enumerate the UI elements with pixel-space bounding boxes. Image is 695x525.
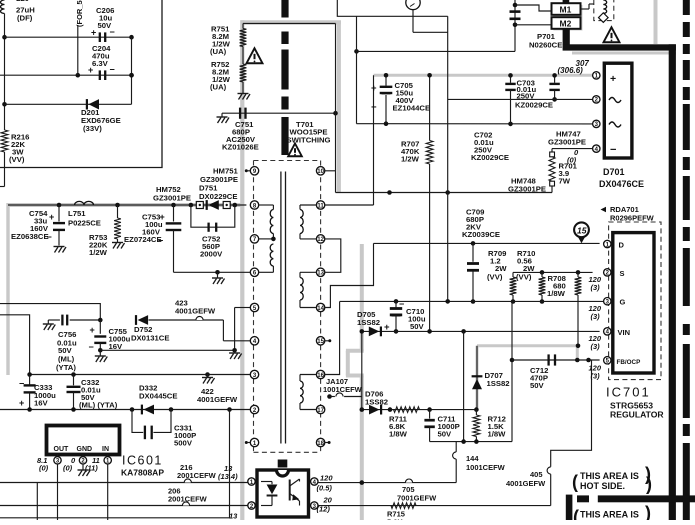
capacitor C709 [472,243,474,261]
svg-text:(0): (0) [63,464,73,473]
transformer dashed box [254,161,321,453]
svg-text:7W: 7W [559,177,571,186]
capacitor C710 [390,307,402,310]
svg-text:GZ3001PE: GZ3001PE [548,138,586,147]
svg-text:SWITCHING: SWITCHING [287,136,331,145]
resistor R752 [240,64,247,82]
ground R753 [112,242,123,244]
svg-text:(11): (11) [85,464,98,473]
node dot bridge out [354,49,359,54]
svg-text:+: + [91,28,96,38]
wire pin6 gnd stub [174,271,251,273]
node flag 15 [574,222,589,237]
wire gray highlighted secondary trace [360,244,364,351]
svg-text:D701: D701 [603,167,625,177]
capacitor C753 [173,205,175,222]
resistor R712 [475,410,477,415]
wire cap to M2 [515,24,551,26]
capacitor C332 [73,375,75,386]
warning triangle T701 [288,143,302,156]
svg-text:IN: IN [102,446,109,453]
pin IC701-4 [604,328,611,335]
wire rail 272 R-top [513,271,593,273]
svg-text:REGULATOR: REGULATOR [610,410,664,420]
diode D332 [141,405,143,415]
pin T701-1 [250,438,258,446]
node dots rail 205 [57,203,62,208]
svg-text:G: G [620,298,626,307]
wire pin5L strap [235,307,251,309]
capacitor C333 [29,375,31,386]
svg-text:144: 144 [466,454,479,463]
svg-text:13: 13 [317,271,324,277]
pin IC601-3 [57,455,59,457]
inductor L201 27uH [1,0,5,14]
resistor R701 [549,157,555,181]
wire C752 loop [191,205,235,227]
pin T701-5 [250,303,258,311]
wire feed 303 [0,304,100,320]
svg-text:DX0131CE: DX0131CE [131,334,169,343]
pin D701-4 [593,145,600,152]
wire gray highlighted trace switching loop [241,20,342,24]
svg-text:17: 17 [317,408,324,414]
RDA701 dashed box [609,222,661,380]
svg-text:): ) [646,474,652,494]
degauss coil dashed box [594,0,614,21]
svg-text:(33V): (33V) [83,124,102,133]
svg-text:KZ01026E: KZ01026E [222,143,259,152]
svg-text:1/2W: 1/2W [89,248,108,257]
ground rail374 [207,375,209,378]
wire R701 return [551,186,553,193]
svg-text:15: 15 [317,339,324,345]
pin opto-2 [248,502,255,509]
box upper-left block border [0,0,162,168]
svg-text:GZ3001PE: GZ3001PE [200,175,238,184]
resistor R707 [429,75,431,140]
pin T701-17 [316,405,324,413]
svg-text:L751: L751 [68,209,86,218]
svg-text:−: − [371,102,377,113]
svg-text:12: 12 [317,237,324,243]
ground C751 left [221,113,223,116]
pin T701-9 [250,167,258,175]
svg-text:OUT: OUT [54,446,70,453]
pin18 tick [325,442,329,444]
svg-text:1SS82: 1SS82 [365,398,388,407]
wire rail 350 [100,349,234,351]
resistor R753 [117,205,119,218]
pin1 tick [245,441,248,444]
svg-text:(3): (3) [591,342,601,351]
wire gray highlighted B+ rail [374,74,595,77]
svg-text:(3): (3) [591,371,601,380]
svg-text:): ) [645,503,651,520]
svg-text:(306.6): (306.6) [558,66,584,75]
node junction dots left [2,35,7,40]
pin D701-3 [593,120,600,127]
wire drain vertical [447,16,449,301]
ground C754 [54,246,65,248]
svg-text:1/8W: 1/8W [547,289,566,298]
svg-text:(3): (3) [591,312,601,321]
wire pin2 rail 99 [448,98,593,100]
outer dashed border [683,0,690,15]
pin T701-16 [316,370,324,378]
svg-text:L20: L20 [16,0,29,3]
wire rail 505 right [318,505,551,507]
svg-text:1001CEFW: 1001CEFW [323,385,363,394]
wire gray trace link [361,331,363,409]
resistor R751 [240,29,247,47]
svg-text:DX0445CE: DX0445CE [139,392,177,401]
wire pin3 down [57,464,59,520]
pin15 tick [325,340,330,342]
capacitor C711 [429,410,431,419]
svg-text:+: + [371,83,377,94]
svg-text:THIS AREA IS: THIS AREA IS [580,471,639,481]
svg-text:P0225CE: P0225CE [68,219,101,228]
wire rail 482 left [0,482,248,484]
thick hot border from M2 [563,29,570,45]
pin T701-12 [316,235,324,243]
svg-text:405: 405 [530,470,543,479]
wire rail 482 right [318,482,456,484]
svg-text:(FOR_5: (FOR_5 [75,0,84,27]
svg-text:DX0229CE: DX0229CE [199,192,237,201]
svg-text:16: 16 [317,373,324,379]
optocoupler D601 box [257,470,309,517]
svg-text:KZ0029CE: KZ0029CE [515,100,553,109]
svg-text:(DF): (DF) [17,14,33,23]
svg-text:GZ3001PE: GZ3001PE [153,194,191,203]
svg-text:(YTA): (YTA) [56,363,76,372]
jumper JA107 [327,394,332,399]
pin T701-7 [250,235,258,243]
svg-text:14: 14 [317,306,324,312]
pin9 tick [245,169,248,172]
node dots rail331 [427,329,432,334]
capacitor C704 [552,73,557,78]
pin IC701-5 [604,357,611,364]
svg-text:(UA): (UA) [210,47,227,56]
svg-text:GND: GND [77,446,93,453]
pin T701-11 [316,201,324,209]
svg-text:M2: M2 [560,18,572,28]
svg-text:(VV): (VV) [487,273,503,282]
svg-text:1/8W: 1/8W [389,430,408,439]
svg-text:R0296PEFW: R0296PEFW [610,214,655,223]
wire M1 to degauss [581,8,590,10]
wire gray shadow under P701 bar [572,52,676,55]
svg-text:18: 18 [317,441,324,447]
svg-text:−: − [89,342,94,352]
svg-text:IC601: IC601 [122,454,163,468]
winding sec 13-14 [300,271,317,273]
wire degauss caps [514,0,516,51]
svg-text:13: 13 [229,512,238,521]
diode D201 [86,99,88,109]
ground IC601 pin2 [82,464,84,470]
wire R751-R752 [242,47,244,65]
capacitor C751 [239,108,241,119]
wire rail 75 [0,74,132,76]
capacitor C756 [61,315,63,326]
pin opto-4 [311,478,318,485]
svg-text:15: 15 [577,225,587,235]
svg-text:HOT SIDE.: HOT SIDE. [580,481,625,491]
wire bottom return [36,483,38,521]
wire rail 243 to pin1 [374,242,600,244]
capacitor C755 [99,320,101,334]
pin T701-18 [316,438,324,446]
svg-text:(13.4): (13.4) [218,472,238,481]
wire cap to M1 [515,5,551,11]
svg-text:4001GEFW: 4001GEFW [175,307,216,316]
svg-text:(: ( [573,507,579,520]
ground C756 [47,320,49,324]
svg-text:1SS82: 1SS82 [357,318,380,327]
jumper HM752 [196,202,203,209]
svg-text:(3): (3) [591,283,601,292]
wire rail 505 left [0,505,248,507]
svg-text:1/2W: 1/2W [401,155,420,164]
wire rail 409 [0,409,250,411]
svg-text:+: + [90,325,95,335]
ground C755 [99,350,101,355]
resistor R709 [512,272,514,277]
cold side thick border bottom [598,495,695,502]
svg-text:4001GEFW: 4001GEFW [506,479,546,488]
pin D701-2 [593,96,600,103]
wire FB return [550,474,552,505]
svg-text:10: 10 [317,169,324,175]
wire right vertical [131,37,133,104]
svg-text:16V: 16V [34,399,49,408]
wire rail 205 black [8,204,246,206]
pin opto-1 [248,478,255,485]
svg-text:KZ0029CE: KZ0029CE [471,153,509,162]
capacitor C754 [58,205,60,222]
resistor R715 [391,503,416,509]
hot-cold thick dashed bar [281,0,288,18]
svg-text:+: + [19,398,24,408]
wire left vertical [4,14,6,131]
wire gray highlighted trace left rail [7,203,242,207]
svg-text:EZ1044CE: EZ1044CE [393,104,431,113]
optocoupler phototransistor [289,480,291,501]
svg-text:50V: 50V [410,322,425,331]
wire pin11 to B+ [325,204,374,206]
warning triangle degauss [604,27,620,42]
svg-text:2000V: 2000V [200,250,223,259]
transistor Q701 [406,0,420,10]
wire pin10 [325,170,336,172]
wire feed 315 [0,315,30,375]
pin D701-1 [593,72,600,79]
wire rail 441 [430,441,512,443]
svg-text:GZ3001PE: GZ3001PE [508,185,546,194]
winding primary lower [270,244,273,266]
wire pin14 to 15V rail [325,243,374,307]
svg-text:(0.5): (0.5) [317,484,333,493]
wire rail 192 drive [336,192,553,194]
connector P701 M1 [554,5,583,31]
svg-text:+: + [49,212,54,222]
svg-text:KZ0039CE: KZ0039CE [462,230,500,239]
wire M1 tab [563,0,570,3]
svg-text:500V: 500V [174,439,193,448]
pin IC601-2 [82,455,84,457]
svg-text:(UA): (UA) [210,83,227,92]
capacitor C206 [99,32,101,42]
svg-text:50V: 50V [438,430,453,439]
winding sec 16-17 [300,374,317,376]
pin T701-10 [316,167,324,175]
svg-text:(VV): (VV) [9,155,25,164]
svg-text:6.3V: 6.3V [92,59,109,68]
wire HV input [337,0,447,16]
svg-text:−: − [610,144,616,156]
wire switch drive vertical [335,24,337,193]
jumper HM748 [550,181,555,186]
svg-text:1SS82: 1SS82 [487,379,510,388]
svg-text:16V: 16V [109,342,124,351]
svg-text:(: ( [572,472,578,492]
diode D706 [369,405,380,415]
svg-text:120: 120 [320,474,333,483]
svg-text:−: − [110,65,115,75]
svg-text:EZ0638CE: EZ0638CE [11,232,49,241]
svg-text:KA7808AP: KA7808AP [121,468,164,478]
wire rail 320 C756 [48,319,60,321]
jumper HM751 [223,202,230,209]
wire 423 link [149,319,224,321]
svg-text:50V: 50V [98,21,113,30]
capacitor C204 [99,70,101,80]
jumper HM747 [550,152,555,157]
svg-text:4001GEFW: 4001GEFW [197,395,238,404]
wire snubber loop top [243,23,336,25]
svg-text:M1: M1 [560,4,572,14]
svg-text:1001CEFW: 1001CEFW [466,463,506,472]
svg-text:2001CEFW: 2001CEFW [177,471,217,480]
pin T701-14 [316,303,324,311]
svg-text:20: 20 [323,496,333,505]
wire to pin4L [223,340,250,342]
svg-text:S: S [620,269,625,278]
ground R752 [242,82,244,93]
resistor R216 [1,130,8,152]
wire pin16 to rail302 [325,302,340,375]
svg-text:THIS AREA IS: THIS AREA IS [580,510,639,520]
transformer core [280,172,282,444]
resistor R711 [394,407,420,413]
svg-text:−: − [19,379,24,389]
svg-text:(0): (0) [39,464,49,473]
pin T701-6 [250,268,258,276]
connector D701 box [604,63,632,158]
diode D707 [476,346,478,410]
wire FOR_5 branch [77,25,79,75]
label RDA701 [601,207,607,212]
capacitor C707 degauss [510,10,521,13]
svg-text:D: D [619,241,625,250]
svg-text:2001CEFW: 2001CEFW [168,495,208,504]
wire rail 410 [362,409,477,411]
regulator IC601 box [47,426,120,455]
capacitor C703 [508,73,513,78]
svg-text:7001GEFW: 7001GEFW [397,494,437,503]
wire rail 360 FB [512,359,600,361]
winding primary upper [259,204,274,206]
pin T701-8 [250,201,258,209]
wire rail 331 to VIN [362,330,600,332]
svg-text:DX0476CE: DX0476CE [599,179,644,189]
svg-text:VIN: VIN [618,328,631,337]
wire bottom rail 518 [0,517,230,519]
wire rail 113 C751 [222,112,336,114]
wire rail 302 [340,300,604,302]
wire pin7 [259,238,274,240]
wire rail 37 [5,36,132,38]
pin IC601-1 [107,455,109,457]
svg-text:11: 11 [317,203,324,209]
resistor R710 [541,272,543,277]
connector P701 M2 [552,17,581,29]
diode D705 [369,327,380,337]
pin IC701-1 [604,240,611,247]
node dot C755 out [98,348,103,353]
pin T701-4 [250,337,258,345]
capacitor C752 [207,223,209,232]
wire rail 104 [5,103,132,105]
wire rail 123 [357,123,593,125]
optocoupler LED [261,481,272,483]
pin T701-2 [250,405,258,413]
wire pin1 down [107,464,109,520]
wire drop x512 [511,302,513,442]
fusible 144 [455,442,457,452]
wire gray highlighted feedback trace [477,344,579,347]
pin opto-3 [311,502,318,509]
ground rail350 [234,350,236,352]
svg-text:IC701: IC701 [606,385,651,400]
svg-text:EZ0724CE: EZ0724CE [124,235,162,244]
svg-text:FB/OCP: FB/OCP [617,359,641,366]
wire rail 51 [357,50,516,52]
wire rail 374 pin3L [30,374,251,376]
degauss coil [603,0,606,14]
diode D751 [206,200,208,210]
regulator IC701 box [613,233,654,373]
wire pin4 R701 [552,148,593,150]
svg-text:(VV): (VV) [516,273,532,282]
capacitor C712 [547,354,549,365]
svg-text:+: + [610,73,616,85]
wire strap 12-13 [325,239,341,272]
svg-text:N0260CE: N0260CE [529,41,562,50]
wire drop x463 [463,331,465,441]
svg-text:1/8W: 1/8W [488,430,507,439]
winding sec 11-12 [300,204,317,206]
pin IC701-2 [604,269,611,276]
pin T701-3 [250,370,258,378]
svg-text:−: − [399,299,404,309]
capacitor C705 [385,75,387,86]
inductor L751 [75,201,94,205]
